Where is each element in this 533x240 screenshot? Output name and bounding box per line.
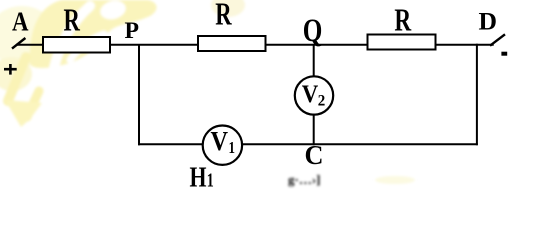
wire R1 to R2 [110, 44, 198, 46]
terminal A slash [12, 38, 25, 49]
svg-text:R: R [215, 0, 232, 32]
voltmeter V1 [203, 126, 242, 165]
svg-text:V: V [211, 126, 229, 156]
voltmeter V2 [295, 76, 333, 114]
label H1 [190, 162, 214, 194]
svg-text:Q: Q [303, 13, 323, 49]
wire R2 to R3 [266, 44, 368, 46]
svg-text:R: R [394, 2, 411, 38]
svg-text:P: P [125, 18, 140, 43]
resistor R1 [43, 1, 110, 52]
svg-text:R: R [64, 1, 81, 37]
svg-text:V: V [302, 81, 319, 108]
wire D vertical [476, 44, 478, 146]
svg-text:H: H [190, 162, 207, 189]
terminal D slash [490, 34, 505, 45]
wire P vertical [138, 44, 140, 145]
svg-text:C: C [305, 140, 324, 170]
wire R3 to D [436, 44, 494, 46]
resistor R2 [198, 0, 266, 51]
svg-text:D: D [479, 9, 498, 36]
polarity - [501, 52, 507, 56]
wire Q to voltmeter V2 [313, 44, 315, 78]
resistor R3 [368, 2, 436, 50]
svg-text:1: 1 [229, 138, 236, 157]
bottom wire right [243, 143, 478, 145]
svg-text:2: 2 [318, 92, 326, 109]
svg-text:1: 1 [207, 170, 214, 189]
svg-text:g·…›]: g·…›] [288, 172, 321, 187]
polarity + [4, 64, 17, 75]
wire A to R1 [16, 44, 43, 46]
bottom wire left [138, 143, 203, 145]
svg-text:A: A [12, 7, 29, 37]
wire V2 to C [313, 114, 315, 146]
